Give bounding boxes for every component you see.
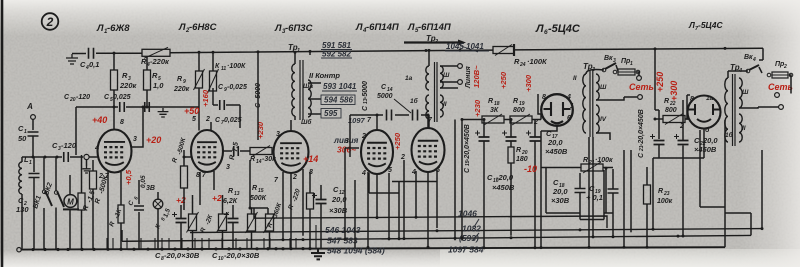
svg-text:0,025: 0,025 <box>224 117 242 124</box>
svg-text:3В: 3В <box>146 185 155 192</box>
transformer Tr2 primary a <box>426 66 429 90</box>
svg-text:-6П3С: -6П3С <box>285 23 313 34</box>
wire pin3 left <box>345 147 359 149</box>
svg-text:24: 24 <box>519 62 526 68</box>
junction on bus <box>534 246 537 249</box>
transformer Tr2 primary b <box>426 95 429 119</box>
capacitor C8 electrolytic <box>176 219 187 223</box>
capacitor C2 130 <box>29 174 40 178</box>
junction on bus <box>344 238 347 241</box>
svg-text:1а: 1а <box>405 75 413 82</box>
junction on ground bus <box>119 248 122 251</box>
wire drop to ground bus <box>309 238 311 248</box>
svg-text:-6Ж8: -6Ж8 <box>107 23 130 34</box>
resistor R23 100k <box>644 185 651 204</box>
junction on top bus <box>425 49 428 52</box>
svg-text:3К: 3К <box>490 107 499 114</box>
wire drop to ground bus <box>201 238 203 249</box>
junction on ground bus <box>266 247 269 250</box>
junction on ground bus <box>289 247 292 250</box>
transformer Tr3 secondary IV <box>596 105 599 133</box>
svg-text:20,0: 20,0 <box>702 136 718 145</box>
svg-text:2: 2 <box>205 116 210 123</box>
junction on top bus <box>113 52 116 55</box>
wire R20 branch <box>510 163 512 236</box>
wire L2 pin2 up <box>211 52 213 130</box>
capacitor C21a electrolytic <box>654 141 665 145</box>
svg-text:8: 8 <box>120 119 124 126</box>
wire drop to ground bus <box>208 238 210 249</box>
fuse Pr1 <box>613 70 617 74</box>
svg-text:592 582: 592 582 <box>322 50 351 59</box>
wire R2 branches <box>92 160 94 249</box>
junction on bus <box>415 216 418 219</box>
capacitor C19 0,1 <box>608 189 619 193</box>
tube L3 6P3S <box>274 131 309 173</box>
svg-text:+50: +50 <box>184 106 199 116</box>
svg-text:1а: 1а <box>706 95 714 102</box>
svg-text:+250: +250 <box>393 132 402 150</box>
wire bus L3 <box>122 235 751 241</box>
wire pin3 down <box>344 148 346 241</box>
wire Vk3 to fuse <box>616 65 618 71</box>
svg-text:М: М <box>67 198 74 207</box>
svg-text:20,0: 20,0 <box>547 138 563 147</box>
wire R4 area down to R5 <box>146 57 148 70</box>
resistor R6 1k <box>118 205 124 223</box>
junction on ground bus <box>281 247 284 250</box>
wire fuse2 to term <box>789 75 791 94</box>
wire C21b down <box>682 158 684 236</box>
svg-text:500К: 500К <box>250 195 267 202</box>
junction on bus <box>588 246 591 249</box>
svg-text:+0,5: +0,5 <box>124 169 133 185</box>
wire R1 branches <box>81 155 83 249</box>
wire L1 pin down <box>120 172 122 205</box>
transformer Tr2 secondary III <box>440 66 443 88</box>
wire R17 branch <box>309 172 311 248</box>
svg-text:3: 3 <box>226 164 230 171</box>
wire C13 left segment <box>350 114 373 116</box>
svg-text:9: 9 <box>183 79 186 85</box>
capacitor C7 0,025 <box>234 146 239 156</box>
svg-text:-6П14П: -6П14П <box>418 22 451 33</box>
resistor R11 100k <box>210 71 217 91</box>
wire vertical x700 <box>699 130 701 207</box>
svg-text:5: 5 <box>192 116 196 123</box>
ground at top bus left end <box>66 54 78 64</box>
junction R22 <box>654 118 657 121</box>
wire C12 branch <box>320 185 322 248</box>
tube L6 5Ts4S <box>541 94 573 126</box>
junction on ground bus <box>56 248 59 251</box>
wire down from C13 left <box>349 115 351 157</box>
svg-text:7,5: 7,5 <box>232 142 240 152</box>
svg-text:К: К <box>215 63 220 70</box>
svg-text:306~: 306~ <box>337 145 356 155</box>
svg-text:594 586: 594 586 <box>324 96 353 105</box>
junction C14 L5 <box>427 114 430 117</box>
wire L6 left pin <box>538 94 542 120</box>
wire C2 top <box>33 157 35 172</box>
wire second terminal <box>440 81 458 83</box>
junction on bus <box>302 238 305 241</box>
junction on ground bus <box>274 247 277 250</box>
wire drop to ground bus <box>269 238 271 249</box>
junction on top bus <box>212 51 215 54</box>
wire Tr3 to Vk3 <box>586 70 604 75</box>
junction <box>56 156 59 159</box>
transformer Tr2 secondary II <box>440 95 443 117</box>
wire C18 C19 loop <box>546 168 604 220</box>
wire C18 branch <box>579 173 581 220</box>
wire C21b branch <box>682 100 684 158</box>
svg-text:1046: 1046 <box>458 209 477 219</box>
resistor R14 30k potentiometer <box>250 148 272 155</box>
svg-text:-20,0×30В: -20,0×30В <box>164 251 200 260</box>
resistor R24 100k <box>493 47 514 54</box>
wire ground to C4 <box>72 53 86 55</box>
svg-text:2: 2 <box>533 119 538 126</box>
svg-text:11: 11 <box>221 66 226 72</box>
svg-text:Л: Л <box>96 23 104 34</box>
svg-text:Ша: Ша <box>303 83 313 90</box>
wire Tr3 III to term2 <box>596 97 637 100</box>
resistor R2 500k <box>90 171 97 189</box>
wire L2 pin5 up <box>198 52 200 130</box>
tube L4 6P14P <box>361 130 393 174</box>
svg-text:15: 15 <box>258 188 264 194</box>
svg-text:1б: 1б <box>410 97 419 105</box>
arrow line near Tr2 <box>404 41 462 43</box>
svg-text:220к: 220к <box>173 86 190 93</box>
svg-text:-6П14П: -6П14П <box>366 22 399 33</box>
tube L5 6P14P <box>412 128 445 172</box>
capacitor C20 section <box>145 102 150 112</box>
bus left end terminal <box>17 248 21 252</box>
svg-text:4: 4 <box>752 57 756 63</box>
junction on bus <box>461 237 464 240</box>
mains terminal 2 <box>638 95 643 100</box>
wire drop to ground bus <box>161 238 163 249</box>
wire R16 branch <box>268 208 270 248</box>
leader line 1046 <box>474 219 479 227</box>
svg-text:Сеть: Сеть <box>768 82 793 92</box>
wires Tr1 secondary taps <box>308 83 321 114</box>
svg-text:R: R <box>488 98 493 105</box>
switch Vk3 <box>602 68 606 72</box>
capacitor C1 50 <box>28 132 39 136</box>
svg-text:-20,0×450В: -20,0×450В <box>464 124 471 161</box>
wire C1 to tank top <box>32 136 34 157</box>
junction on ground bus <box>43 248 46 251</box>
svg-text:×450В: ×450В <box>545 147 568 156</box>
wire Tr1 primary bottom <box>294 116 296 120</box>
svg-text:R: R <box>228 188 233 195</box>
wires L4 bottom pins <box>368 172 389 248</box>
wire L1 cathode down <box>107 172 109 249</box>
wire R22 rail <box>655 118 689 120</box>
svg-text:2: 2 <box>361 133 366 140</box>
junction C16 <box>510 118 513 121</box>
svg-text:1045 1041: 1045 1041 <box>446 42 484 51</box>
wire +250 rail down <box>655 49 659 139</box>
svg-text:×450В: ×450В <box>492 183 515 192</box>
capacitor C5 0,025 <box>120 102 125 112</box>
wire L1 left end up <box>253 208 255 218</box>
wire L3 left end up <box>121 230 123 241</box>
tube L2 6N8S <box>191 130 223 172</box>
resistor R10 2k <box>219 214 227 231</box>
svg-text:Вк: Вк <box>604 55 613 62</box>
wire R23 branch <box>646 167 648 247</box>
wire bus L1 1046 line <box>254 216 607 228</box>
svg-text:2: 2 <box>46 15 54 29</box>
wire connectors under L4 L5 <box>369 182 437 194</box>
wire R18 R19 rail <box>462 119 541 121</box>
wire C13 C14 line <box>373 114 429 116</box>
junction on ground bus <box>160 248 163 251</box>
svg-text:-20,0: -20,0 <box>496 173 514 182</box>
grid terminal circle <box>84 154 89 159</box>
wire R21 rail <box>541 167 613 169</box>
svg-text:-120: -120 <box>61 141 77 150</box>
junction on ground bus <box>92 248 95 251</box>
junction on ground bus <box>80 248 83 251</box>
wire grid line y157 <box>22 156 83 158</box>
svg-text:+2: +2 <box>212 193 222 203</box>
svg-text:5: 5 <box>388 167 392 174</box>
wire Vk4 to fuse2 <box>759 67 762 73</box>
svg-text:3: 3 <box>276 131 280 138</box>
junction tank top <box>32 156 35 159</box>
svg-text:-5000: -5000 <box>362 81 369 99</box>
capacitor C15 electrolytic <box>479 137 490 141</box>
wire C7 to R14 <box>240 150 250 152</box>
junction on ground bus <box>238 247 241 250</box>
svg-text:+20: +20 <box>146 135 161 145</box>
motor M <box>64 195 77 208</box>
wire Tr3 core lead down left <box>588 137 590 248</box>
junction on top bus <box>309 50 312 53</box>
transformer Tr4 core <box>733 74 736 146</box>
wire vertical x455 <box>454 120 456 241</box>
wire x624 down <box>623 150 625 247</box>
junction on bus <box>579 228 582 231</box>
ground below grid terminal <box>82 166 90 173</box>
line terminal 1 <box>458 64 463 69</box>
svg-text:1,0: 1,0 <box>153 81 164 90</box>
svg-text:II Контр: II Контр <box>309 71 340 80</box>
svg-text:547 583: 547 583 <box>327 236 358 246</box>
resistor R7 500k <box>181 166 188 188</box>
wire R8 branch <box>192 195 194 248</box>
svg-text:1: 1 <box>29 160 32 166</box>
junction on bus <box>592 235 595 238</box>
wire drop to ground bus <box>194 238 196 249</box>
svg-text:Л: Л <box>355 22 363 33</box>
junction on top bus <box>198 51 201 54</box>
svg-text:3: 3 <box>345 138 349 145</box>
junction Tr2 top bus <box>428 49 431 52</box>
tick at R24 right end <box>513 44 515 56</box>
svg-text:·100К: ·100К <box>527 57 548 66</box>
capacitor C14 5000 <box>413 110 418 121</box>
junction R15 top <box>249 207 252 210</box>
svg-text:1: 1 <box>570 103 574 110</box>
wire Tr2 primary ends <box>428 50 430 128</box>
wire vertical x725 to Tr4 <box>724 120 726 247</box>
mains2 terminal 2 <box>779 105 784 110</box>
svg-text:2: 2 <box>679 123 684 130</box>
svg-text:593 1041: 593 1041 <box>323 82 357 91</box>
ground on screen line <box>158 108 169 117</box>
svg-text:R: R <box>658 188 663 195</box>
wire drop to ground bus <box>235 238 237 249</box>
svg-text:595: 595 <box>324 109 338 118</box>
svg-text:R: R <box>583 157 588 164</box>
svg-text:Ш: Ш <box>443 72 450 79</box>
svg-text:1082: 1082 <box>462 224 481 234</box>
svg-text:0,1: 0,1 <box>89 60 99 69</box>
wire Tr4 III to term <box>739 107 779 108</box>
capacitor C12 electrolytic <box>316 200 327 204</box>
indicator lamp <box>153 199 163 209</box>
svg-text:Л: Л <box>274 23 282 34</box>
transformer Tr1 core <box>300 60 303 120</box>
svg-text:-20,0×30В: -20,0×30В <box>224 251 260 260</box>
wire terminal to tube grid <box>89 156 98 158</box>
svg-text:3: 3 <box>133 136 137 143</box>
svg-text:8: 8 <box>542 94 546 101</box>
figure number circled 2 <box>42 13 59 30</box>
junction L4 top <box>376 114 379 117</box>
wires R3 R5 down to screen line <box>114 90 147 107</box>
svg-text:+250: +250 <box>655 72 665 92</box>
junction screen line <box>113 106 116 109</box>
svg-text:Вк: Вк <box>744 54 753 61</box>
transformer Tr4 secondary II <box>739 114 742 142</box>
wire top bus right end down to Vk4 <box>759 48 763 60</box>
resistor R4 220k adjustable <box>142 49 170 56</box>
resistor R20 180 <box>508 147 514 163</box>
svg-text:-5Ц4С: -5Ц4С <box>548 23 581 35</box>
svg-text:Линия: Линия <box>465 66 472 89</box>
resistor R8 1,5 <box>189 214 197 231</box>
svg-text:+160: +160 <box>201 89 210 107</box>
wire drop to ground bus <box>106 238 108 249</box>
wire VK2 branch <box>55 157 57 249</box>
page left border <box>1 0 4 267</box>
wire C19 branch <box>612 169 614 236</box>
inductor L1 <box>19 162 22 194</box>
junction on bus <box>510 236 513 239</box>
switch VK1 <box>42 190 46 194</box>
junction on ground bus <box>146 248 149 251</box>
resistor R19 800 <box>510 116 532 123</box>
wire Tr2 bottom to cap row <box>428 115 430 119</box>
wire L6 cathode down <box>540 168 542 248</box>
junction on top bus <box>257 50 260 53</box>
wire drop to ground bus <box>140 238 142 249</box>
wire fuse to mains term <box>637 72 639 76</box>
svg-text:20: 20 <box>69 97 76 103</box>
wire Tr3 IV out <box>596 133 610 140</box>
svg-text:+230: +230 <box>473 99 482 117</box>
svg-text:·100к: ·100к <box>595 157 613 164</box>
junction <box>44 156 47 159</box>
svg-text:21: 21 <box>588 160 595 166</box>
wire L5 top pin <box>427 115 429 128</box>
junction screen line <box>146 106 149 109</box>
svg-text:-5Ц4С: -5Ц4С <box>698 20 723 30</box>
wire L3 top to Tr1 <box>290 120 292 131</box>
junction on bus <box>367 246 370 249</box>
junction on ground bus <box>173 247 176 250</box>
svg-text:Л: Л <box>178 22 186 33</box>
wire top B+ bus <box>96 48 763 53</box>
wire drop to ground bus <box>289 238 291 249</box>
svg-text:-120: -120 <box>76 94 90 101</box>
wire coil ends <box>21 157 23 249</box>
underlines 591 <box>321 50 352 59</box>
svg-text:R: R <box>513 98 518 105</box>
junction on ground bus <box>214 247 217 250</box>
junction on ground bus <box>31 248 34 251</box>
svg-text:R: R <box>250 156 255 163</box>
resistor R3 220k <box>111 70 118 90</box>
capacitor C6 0,05 <box>134 206 144 210</box>
junction Tr1 top <box>294 51 297 54</box>
svg-text:IV: IV <box>600 116 607 123</box>
transformer Tr3 core <box>590 70 593 137</box>
wire C6 branch <box>138 180 140 249</box>
svg-text:R: R <box>516 147 521 154</box>
capacitor C13 5000 <box>387 110 392 121</box>
line terminal 2 <box>458 80 463 85</box>
tube L7 5Ts4S <box>688 96 721 129</box>
svg-text:R: R <box>229 155 236 161</box>
svg-text:120В~: 120В~ <box>472 65 481 88</box>
resistor R15 500k <box>248 214 256 231</box>
junction on bus <box>677 235 680 238</box>
wire L1 anode up <box>132 107 144 147</box>
wire drop to ground bus <box>295 238 297 249</box>
svg-text:-220к: -220к <box>150 57 170 66</box>
svg-text:10: 10 <box>218 256 224 262</box>
junction on top bus <box>654 47 657 50</box>
svg-text:2: 2 <box>783 64 787 70</box>
wire staircase step2 <box>700 206 725 208</box>
capacitor C16 electrolytic <box>506 137 517 141</box>
svg-text:Сеть: Сеть <box>629 82 654 92</box>
resistor R17 220 <box>307 193 314 209</box>
wire R10 branch <box>222 195 224 248</box>
mains terminal 1 <box>637 76 642 81</box>
junction on bus <box>427 246 430 249</box>
junction on top bus <box>459 49 462 52</box>
junction C15 <box>483 118 486 121</box>
svg-text:+ 0,1: + 0,1 <box>586 193 603 202</box>
wires L5 bottom pins <box>404 160 437 247</box>
wire down from screen line left end <box>75 107 77 155</box>
underline 593 <box>322 90 357 92</box>
junction on bus <box>398 237 401 240</box>
svg-text:Л: Л <box>688 20 695 30</box>
wire screen line y107 <box>76 106 199 108</box>
wire R11 down <box>212 88 214 105</box>
svg-text:4: 4 <box>361 170 366 177</box>
